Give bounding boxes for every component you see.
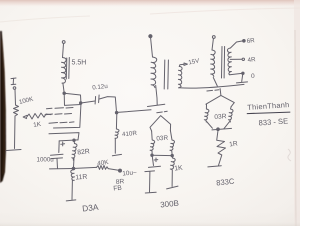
300B filament right leg resistor 03R xyxy=(170,131,175,156)
svg-text:10u~: 10u~ xyxy=(122,169,137,177)
cathode node wire xyxy=(59,140,78,141)
svg-text:11R: 11R xyxy=(75,174,88,182)
wire terminal to choke xyxy=(63,44,64,58)
svg-text:03R: 03R xyxy=(214,113,227,121)
filament junction wire xyxy=(152,154,172,156)
grid dashes row1 xyxy=(47,108,74,109)
svg-text:D3A: D3A xyxy=(82,202,100,214)
resistor 1K with arrow xyxy=(23,113,51,119)
300B cathode return tick xyxy=(167,186,178,189)
wire box to cap xyxy=(81,101,95,103)
node G xyxy=(217,128,220,131)
grid dashes row2 xyxy=(45,114,72,115)
node FB terminal xyxy=(119,169,122,172)
capacitor 0.12u xyxy=(95,95,99,104)
wire primary to 300B plate xyxy=(156,85,158,104)
grid dashes row3 xyxy=(49,122,74,123)
ground for 11R xyxy=(66,200,76,201)
OPT primary coil xyxy=(211,50,216,76)
svg-text:FB: FB xyxy=(113,185,123,193)
wire OPT primary to 833 plate xyxy=(213,78,217,87)
faint creases xyxy=(0,16,90,22)
cathode line lower xyxy=(49,133,79,140)
svg-text:5.5H: 5.5H xyxy=(72,60,87,67)
300B grid dashes xyxy=(157,111,167,113)
wire OPT terminal xyxy=(212,39,213,50)
svg-text:6R: 6R xyxy=(246,37,255,45)
resistor 100K xyxy=(14,105,19,116)
ground for 10u xyxy=(145,191,156,194)
300B filament left leg resistor 03R xyxy=(150,131,155,155)
ground for 410R xyxy=(112,154,121,155)
svg-text:1R: 1R xyxy=(229,140,239,148)
wire cap to bottom xyxy=(56,159,59,169)
resistor 11R xyxy=(71,170,75,200)
wire secondary top with 15V arrow xyxy=(179,63,187,66)
wire to ground xyxy=(14,116,17,149)
svg-text:1000u: 1000u xyxy=(37,157,55,164)
interstage core bars xyxy=(164,60,168,89)
tap 6R wire xyxy=(230,41,242,48)
wire cathode to cap 1000u xyxy=(58,141,60,153)
wire cap to node xyxy=(99,97,116,112)
capacitor 1000u xyxy=(51,154,64,158)
resistor 40K xyxy=(97,165,109,169)
top pink photo edge xyxy=(0,0,300,7)
svg-text:82R: 82R xyxy=(77,148,90,156)
choke core bars xyxy=(66,58,69,80)
triode 300B plate bar xyxy=(148,104,165,106)
300B filament roof xyxy=(150,116,171,131)
wire to 40K xyxy=(75,167,97,168)
right paper edge xyxy=(294,0,300,226)
833 filament roof xyxy=(206,95,234,106)
OPT secondary coil xyxy=(227,48,231,75)
faint showthrough scribble right edge xyxy=(288,149,291,161)
node 6R xyxy=(243,40,246,43)
node B (grid of 300B) xyxy=(115,111,118,114)
choke 5.5H terminal xyxy=(62,41,65,44)
inductor 5.5H coil xyxy=(61,58,66,84)
plus sign xyxy=(61,142,65,146)
svg-text:1K: 1K xyxy=(174,165,183,173)
bottom wire / cap return xyxy=(50,168,74,170)
node 0 xyxy=(242,72,244,74)
node C (cathode) xyxy=(73,139,75,141)
tap 0 wire xyxy=(230,73,242,74)
capacitor 10u xyxy=(145,156,161,192)
wire terminal to primary xyxy=(151,38,153,57)
svg-text:0: 0 xyxy=(251,73,255,80)
title underline xyxy=(247,112,290,114)
bottom shading xyxy=(0,212,300,226)
node F xyxy=(171,154,173,156)
node E xyxy=(151,154,153,156)
interstage secondary coil xyxy=(178,66,182,87)
svg-text:4R: 4R xyxy=(247,56,256,64)
833 filament junction xyxy=(212,128,232,130)
resistor 1K 300B xyxy=(170,156,175,187)
OPT core bars xyxy=(222,47,225,79)
ground for 0 tap xyxy=(237,75,248,83)
node A (D3A anode) xyxy=(63,92,66,95)
svg-text:03R: 03R xyxy=(156,135,169,143)
wire 833 plate apex xyxy=(219,89,222,96)
833 left leg resistor 03R xyxy=(204,105,212,129)
833 right leg resistor 03R xyxy=(224,107,233,129)
wire input down xyxy=(14,90,17,106)
resistor 82R xyxy=(72,140,77,167)
OPT primary terminal xyxy=(212,36,215,39)
wire node to 300B grid xyxy=(117,110,151,113)
resistor 1R xyxy=(217,130,226,165)
node 4R xyxy=(242,58,244,60)
input terminal I xyxy=(11,78,16,89)
resistor 410R xyxy=(115,114,119,153)
wire secondary bottom to 833 grid xyxy=(179,84,244,88)
ground for 1R xyxy=(208,166,221,167)
ground xyxy=(7,150,22,151)
pen at left edge xyxy=(0,31,6,183)
node on box xyxy=(80,102,82,104)
plus sign 10u xyxy=(154,158,158,162)
interstage primary coil xyxy=(151,57,157,88)
wire choke to node xyxy=(63,83,64,93)
node D xyxy=(72,167,75,170)
833 grid dashes xyxy=(207,90,219,91)
pentode D3A anode box xyxy=(64,93,81,105)
cathode line upper xyxy=(54,105,81,128)
interstage terminal node xyxy=(149,35,152,38)
tap 4R wire xyxy=(230,58,242,60)
wire 40K to FB terminal xyxy=(108,169,118,171)
